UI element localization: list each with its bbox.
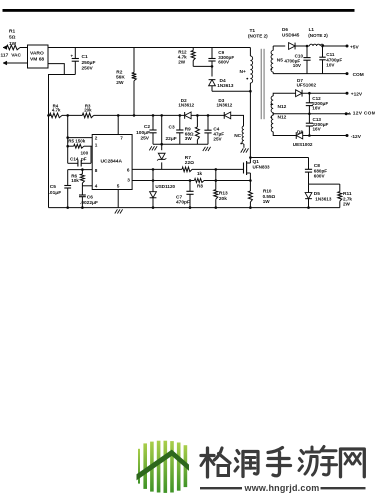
svg-text:25V: 25V [213, 137, 222, 142]
svg-text:C3: C3 [169, 125, 175, 131]
svg-text:5: 5 [117, 184, 120, 189]
svg-text:20k: 20k [219, 196, 227, 202]
svg-text:VM 68: VM 68 [30, 57, 44, 63]
svg-text:NC: NC [234, 133, 241, 139]
svg-text:N12: N12 [278, 115, 287, 121]
svg-text:+5V: +5V [350, 44, 359, 50]
svg-text:4: 4 [95, 184, 98, 189]
svg-text:2W: 2W [343, 202, 351, 207]
svg-text:C4: C4 [213, 126, 219, 131]
svg-text:117: 117 [1, 52, 9, 58]
svg-text:N12: N12 [278, 104, 287, 110]
svg-text:100: 100 [81, 151, 89, 156]
svg-text:10V: 10V [326, 62, 335, 67]
svg-text:(NOTE 2): (NOTE 2) [308, 33, 328, 38]
svg-text:C7: C7 [176, 194, 182, 200]
svg-text:.0022μF: .0022μF [80, 200, 98, 206]
svg-text:+12V: +12V [351, 92, 363, 98]
svg-text:7: 7 [120, 135, 123, 140]
svg-text:1W: 1W [263, 199, 271, 204]
svg-text:R10: R10 [263, 189, 272, 194]
svg-text:±: ± [348, 111, 351, 117]
svg-text:N5: N5 [277, 58, 283, 64]
svg-text:16V: 16V [313, 127, 322, 132]
svg-text:R8: R8 [197, 184, 203, 189]
svg-text:56K: 56K [116, 74, 125, 80]
svg-text:UFS1002: UFS1002 [297, 82, 317, 87]
svg-text:250V: 250V [82, 66, 94, 72]
svg-text:2W: 2W [116, 80, 124, 86]
svg-text:C6: C6 [87, 194, 93, 200]
svg-text:1k: 1k [197, 171, 203, 176]
svg-text:10k: 10k [71, 178, 79, 183]
svg-text:1N3613: 1N3613 [217, 83, 234, 88]
svg-text:100μF: 100μF [136, 130, 150, 136]
svg-text:VARO: VARO [30, 51, 44, 57]
svg-text:D8: D8 [297, 130, 303, 135]
svg-text:250μF: 250μF [82, 60, 96, 66]
svg-text:R13: R13 [219, 191, 228, 197]
svg-text:VAC: VAC [11, 52, 21, 58]
svg-text:1N3613: 1N3613 [315, 197, 332, 202]
svg-text:UFN833: UFN833 [253, 165, 271, 170]
svg-text:pF: pF [81, 156, 87, 161]
svg-text:6: 6 [127, 168, 130, 173]
svg-text:8: 8 [95, 168, 98, 173]
svg-text:L1: L1 [309, 27, 315, 32]
svg-text:USD1120: USD1120 [155, 184, 175, 189]
svg-text:25V: 25V [140, 136, 149, 142]
svg-text:www.hngrjd.com: www.hngrjd.com [244, 483, 320, 493]
svg-text:600V: 600V [218, 60, 230, 65]
svg-text:16V: 16V [312, 106, 321, 111]
svg-text:C14: C14 [70, 156, 79, 161]
svg-text:4.7k: 4.7k [52, 107, 61, 112]
svg-text:C2: C2 [144, 124, 150, 130]
svg-text:C1: C1 [82, 54, 88, 60]
svg-text:UC2844A: UC2844A [101, 159, 123, 165]
svg-text:1N3612: 1N3612 [217, 103, 233, 108]
svg-text:600V: 600V [314, 174, 326, 179]
svg-text:(NOTE 2): (NOTE 2) [248, 33, 268, 38]
svg-text:2: 2 [95, 135, 98, 140]
svg-text:5Ω: 5Ω [9, 35, 16, 41]
svg-text:N+: N+ [240, 69, 246, 75]
svg-text:10V: 10V [293, 63, 302, 68]
svg-text:.01μF: .01μF [49, 190, 62, 196]
svg-text:2W: 2W [178, 59, 186, 64]
svg-text:R7: R7 [185, 155, 191, 161]
svg-text:R1: R1 [9, 28, 15, 34]
svg-text:3: 3 [127, 178, 130, 183]
svg-text:+: + [71, 54, 74, 59]
svg-text:3W: 3W [185, 136, 193, 141]
svg-text:20k: 20k [84, 107, 92, 112]
svg-text:UES1002: UES1002 [293, 142, 313, 147]
svg-text:COM: COM [353, 72, 364, 78]
svg-text:470pF: 470pF [176, 200, 190, 206]
svg-text:22Ω: 22Ω [185, 160, 194, 166]
svg-text:1: 1 [95, 143, 98, 148]
svg-text:D6: D6 [282, 27, 288, 32]
svg-text:USD945: USD945 [282, 33, 300, 38]
svg-text:C5: C5 [50, 184, 56, 190]
svg-text:1N3612: 1N3612 [178, 103, 194, 108]
svg-text:R5 150k: R5 150k [68, 139, 86, 144]
svg-text:22μF: 22μF [166, 136, 177, 142]
svg-text:C11: C11 [326, 52, 335, 57]
svg-text:-12V: -12V [351, 134, 362, 140]
svg-text:12V COM: 12V COM [353, 111, 375, 117]
